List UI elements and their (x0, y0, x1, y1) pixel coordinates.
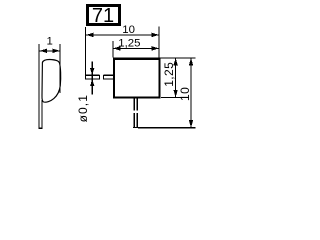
svg-text:10: 10 (122, 24, 135, 36)
svg-text:1: 1 (47, 36, 53, 48)
svg-text:1,25: 1,25 (118, 37, 140, 49)
svg-text:ø0,1: ø0,1 (76, 94, 90, 122)
label box 71 (88, 5, 120, 27)
front view: bottom pin with break (133, 98, 138, 128)
side view: flattened paddle (42, 59, 61, 102)
svg-text:71: 71 (92, 5, 114, 27)
svg-text:1,25: 1,25 (162, 62, 176, 87)
front view: body (114, 59, 159, 98)
flat lead (plan view) with break (85, 27, 114, 80)
extension line, body top edge (right side) (161, 57, 196, 59)
extension line, pin tip (bottom right) (138, 127, 195, 129)
dim 10 horizontal (top) (86, 24, 159, 37)
extension line, body bottom edge (right side) (161, 96, 186, 98)
dim 1 (paddle width) (40, 36, 61, 93)
svg-text:10: 10 (178, 87, 192, 101)
side view: lead wire (38, 44, 42, 128)
dim 1,25 horizontal (113, 27, 159, 58)
dim 10 vertical (178, 58, 193, 128)
dim 1,25 vertical (162, 58, 178, 98)
dim 0,1 (lead thickness) (76, 62, 94, 123)
